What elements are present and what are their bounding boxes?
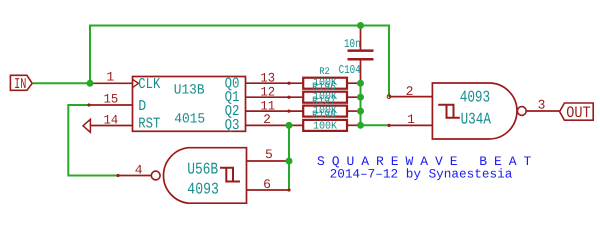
svg-text:2: 2	[406, 84, 414, 99]
svg-text:4015: 4015	[174, 111, 205, 127]
svg-text:2: 2	[263, 112, 271, 127]
svg-text:4: 4	[135, 163, 143, 178]
svg-text:U34A: U34A	[461, 109, 491, 128]
svg-text:12: 12	[260, 84, 275, 99]
svg-text:5: 5	[265, 147, 273, 162]
svg-text:U13B: U13B	[174, 82, 205, 98]
svg-text:4093: 4093	[460, 88, 491, 107]
svg-text:OUT: OUT	[566, 104, 591, 122]
svg-text:15: 15	[104, 91, 119, 106]
svg-text:C104: C104	[339, 63, 361, 77]
svg-text:100K: 100K	[313, 120, 338, 132]
svg-text:Q3: Q3	[225, 117, 240, 134]
svg-text:U56B: U56B	[187, 159, 218, 178]
svg-text:3: 3	[538, 98, 546, 113]
svg-text:2014–7–12 by Synaestesia: 2014–7–12 by Synaestesia	[330, 167, 513, 182]
svg-text:1: 1	[106, 69, 114, 84]
svg-text:R2: R2	[319, 67, 330, 78]
svg-text:RST: RST	[138, 115, 160, 132]
svg-text:CLK: CLK	[138, 76, 160, 93]
svg-text:IN: IN	[14, 76, 26, 93]
svg-text:1: 1	[407, 112, 415, 127]
svg-text:10n: 10n	[344, 37, 361, 51]
svg-text:4093: 4093	[187, 179, 219, 198]
svg-text:13: 13	[260, 70, 275, 85]
svg-text:14: 14	[104, 113, 119, 128]
svg-text:D: D	[138, 98, 146, 115]
svg-text:6: 6	[263, 177, 271, 192]
